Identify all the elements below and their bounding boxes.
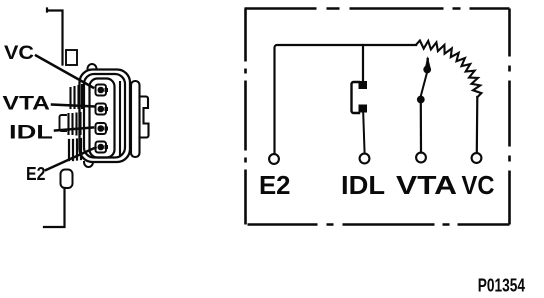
svg-text:P01354: P01354 [478,276,525,296]
leader line VTA [52,105,94,107]
terminal VTA [416,153,426,163]
wiper arrowhead [425,56,431,68]
wiper contact dot lower [417,96,425,104]
IDL switch fixed contact upper [359,81,368,89]
pin 2 (VTA) [96,104,109,115]
connector latch right side [131,81,140,157]
svg-text:VTA: VTA [396,172,457,200]
sensor body outline top [47,9,63,65]
wiper arrow shaft [426,59,429,67]
connector top bump [88,64,97,69]
connector housing inner shell [84,74,125,158]
wire rib group C [69,139,81,160]
terminal E2 [269,154,279,164]
wiper contact dot upper [423,66,431,74]
wire rib group B hook [60,115,67,131]
svg-text:IDL: IDL [9,122,53,144]
pin 3 (IDL) [96,123,109,134]
pin cavity wall [90,79,115,158]
wire IDL upper [362,45,364,81]
terminal VC [472,153,482,163]
IDL switch fixed contact lower [359,105,368,113]
leader line IDL [55,128,93,131]
sensor body outline bottom [44,188,65,227]
svg-text:VC: VC [462,172,495,200]
wire VTA lower [420,104,422,153]
wire rib group B [69,113,81,135]
wiper arm [421,73,427,96]
leader line VC [36,56,93,88]
connector bottom bump [84,162,93,167]
sensor body top tab [66,50,77,65]
wire IDL lower [363,113,364,154]
connector housing outer shell [80,70,131,163]
resistor track R (potentiometer) [416,41,481,98]
schematic boundary (chain line box) [245,9,510,225]
pin 4 (E2) [96,142,109,153]
sensor body bottom tab [61,170,73,189]
pin 1 (VC) [96,85,109,96]
svg-text:VTA: VTA [3,93,51,115]
svg-text:VC: VC [4,42,34,64]
inner right wall [119,82,121,155]
terminal IDL [360,154,370,164]
leader line E2 [46,148,96,171]
svg-text:E2: E2 [259,172,291,200]
wire top rail [275,45,417,153]
svg-text:IDL: IDL [341,172,385,200]
wire VC [476,97,479,153]
wire rib group A [71,85,83,108]
svg-text:E2: E2 [26,163,46,184]
latch inner step [140,97,149,138]
IDL switch movable bracket [352,82,360,113]
